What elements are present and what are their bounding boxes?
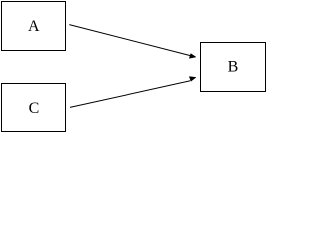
svg-text:B: B (228, 59, 239, 76)
svg-text:C: C (29, 100, 40, 117)
svg-text:A: A (28, 18, 40, 35)
